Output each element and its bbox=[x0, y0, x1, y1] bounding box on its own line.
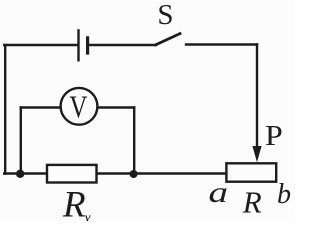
svg-text:a: a bbox=[209, 175, 228, 209]
svg-text:R: R bbox=[242, 184, 262, 219]
svg-text:R: R bbox=[62, 185, 86, 222]
svg-text:V: V bbox=[69, 90, 87, 126]
svg-text:S: S bbox=[157, 0, 173, 31]
svg-text:b: b bbox=[277, 179, 291, 210]
svg-text:P: P bbox=[265, 119, 283, 151]
svg-text:x: x bbox=[83, 207, 91, 221]
